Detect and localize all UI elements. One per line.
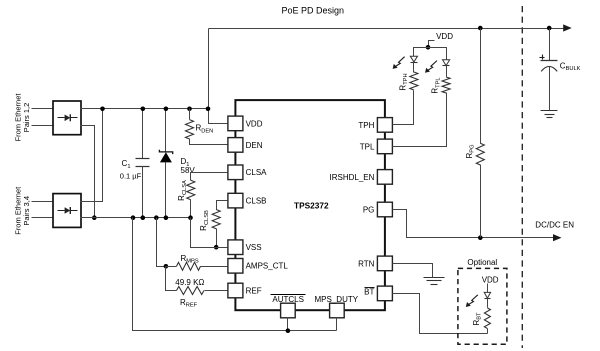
svg-text:CLSA: CLSA (246, 168, 268, 177)
node: VSS bus / bridge1 junction (92, 215, 97, 220)
node: AMPS/REF branch on bus (154, 215, 159, 220)
svg-text:CBULK: CBULK (560, 61, 581, 72)
arrow: PoE rail output (563, 24, 572, 31)
pin BT (right, box) (377, 286, 392, 301)
node: VDD bus / bridge2 junction (100, 107, 105, 112)
light arrow for LED D2 (395, 57, 405, 67)
optional section dashed box (458, 268, 507, 344)
wire: right branch to LED2 (429, 48, 447, 60)
wire: vertical from PoE rail down to VDD bus at x=208 (208, 29, 210, 109)
svg-text:49.9 KΩ: 49.9 KΩ (175, 278, 204, 287)
node: D1 on VDD bus (164, 107, 169, 112)
resistor RTPH (410, 72, 418, 90)
wire: RMPS to AMPS_CTL pin (201, 266, 228, 268)
svg-text:RMPS: RMPS (181, 254, 199, 265)
wire: D1 anode lead to VSS bus (165, 163, 167, 218)
resistor RMPS (177, 262, 201, 270)
resistor RREF 49.9 KOhm (177, 287, 205, 295)
wire: RTPH to TPH pin (393, 91, 414, 125)
LED D4 (BT indicator) (484, 292, 490, 298)
wire: RREF to REF pin (205, 290, 228, 292)
pin IRSHDL_EN (right, box) (377, 170, 392, 185)
svg-text:AMPS_CTL: AMPS_CTL (246, 262, 289, 271)
wire: VDD bus corner down to VDD pin (209, 109, 228, 124)
wire: VSS pin to VSS bus (191, 218, 228, 248)
svg-text:C1: C1 (122, 159, 131, 170)
svg-text:RDEN: RDEN (196, 124, 214, 135)
arrow: DC/DC EN output (553, 234, 562, 241)
pin DEN (left, box) (228, 138, 243, 153)
ground (CBULK) (541, 110, 558, 112)
wire: bridge1 positive output to VDD bus (81, 108, 209, 110)
wire: top PoE rail y=28 (209, 28, 564, 30)
pin VDD (left, box) (228, 116, 243, 131)
pin RTN (right, box) (377, 256, 392, 271)
rectifier bridge B2 (pairs 3,4) (53, 194, 81, 228)
svg-text:VDD: VDD (436, 32, 453, 41)
wire: BT pin to RBT bottom (393, 294, 488, 334)
svg-text:IRSHDL_EN: IRSHDL_EN (329, 173, 374, 182)
diode inside bridge B2 (58, 210, 65, 212)
wire: RTPL to TPL pin (393, 93, 447, 147)
wire: bridge2 left input leads (32, 201, 53, 203)
svg-text:TPH: TPH (358, 121, 374, 130)
capacitor C1 0.1 uF (136, 158, 150, 160)
svg-text:MPS_DUTY: MPS_DUTY (315, 295, 359, 304)
svg-text:PG: PG (363, 205, 375, 214)
svg-text:TPS2372: TPS2372 (294, 200, 329, 210)
LED D3 (TPL indicator) (443, 60, 450, 66)
svg-text:DC/DC EN: DC/DC EN (535, 221, 574, 230)
svg-text:PoE PD Design: PoE PD Design (282, 6, 345, 16)
svg-text:RTPL: RTPL (431, 77, 442, 93)
svg-text:Optional: Optional (467, 258, 497, 267)
svg-text:VDD: VDD (246, 119, 263, 128)
wire: junction down to RREF (166, 267, 177, 291)
svg-text:RCLSB: RCLSB (199, 210, 210, 231)
svg-text:DEN: DEN (246, 141, 263, 150)
light arrow for LED D3 (427, 61, 437, 71)
pin MPS_DUTY (bottom, box) (330, 303, 345, 318)
wire: bridge1 left input leads (32, 108, 53, 110)
resistor RCLSA (187, 180, 195, 199)
svg-text:RREF: RREF (180, 298, 198, 309)
node: RPG on DC/DC EN line (478, 235, 483, 240)
capacitor CBULK (polarized) (541, 60, 558, 62)
svg-text:TPL: TPL (360, 142, 375, 151)
wire: RPG upper lead (480, 29, 482, 144)
wire: LED3 to RBT (487, 299, 489, 308)
node: CBULK on PoE rail (547, 26, 552, 31)
pin TPL (right, box) (377, 139, 392, 154)
node: RCLSB on VSS pin wire (214, 245, 219, 250)
light arrow for LED D4 (468, 295, 478, 305)
svg-text:BT: BT (364, 288, 374, 297)
wire: optional VDD lead to LED3 (487, 284, 489, 293)
svg-text:Pairs 1,2: Pairs 1,2 (22, 103, 31, 133)
wire: RBT bottom lead (487, 329, 489, 334)
wire: RCLSA bottom to VSS bus (190, 200, 192, 218)
svg-text:RTN: RTN (358, 259, 375, 268)
resistor RTPL (442, 77, 450, 93)
pin TPH (right, box) (377, 118, 392, 133)
dashed system boundary line (521, 6, 523, 348)
rectifier bridge B1 (pairs 1,2) (53, 101, 81, 135)
svg-text:0.1 µF: 0.1 µF (120, 171, 142, 180)
node: RMPS/RREF junction (164, 264, 169, 269)
svg-text:AUTCLS: AUTCLS (272, 295, 304, 304)
pin AMPS_CTL (left, box) (228, 259, 243, 274)
svg-text:VDD: VDD (482, 275, 499, 284)
node: D1 on VSS bus (164, 215, 169, 220)
wire: RDEN bottom lead to DEN pin (190, 139, 228, 145)
resistor RPG (476, 143, 484, 165)
ground (RTN) (424, 277, 445, 279)
svg-text:RTPH: RTPH (398, 73, 409, 90)
wire: RPG lower lead (480, 165, 482, 238)
svg-text:RPG: RPG (465, 145, 476, 159)
op IC U1 TPS2372 body (235, 100, 385, 310)
resistor RCLSB (212, 210, 220, 229)
svg-text:VSS: VSS (246, 243, 262, 252)
wire: AUTCLS pin to bottom rail (287, 318, 289, 331)
wire: CLSA pin to RCLSA (191, 173, 228, 181)
wire: MPS_DUTY pin to bottom rail (336, 318, 338, 331)
wire: CBULK bottom lead (549, 67, 551, 111)
wire: CBULK top lead (549, 29, 551, 61)
LED D2 (TPH indicator) (410, 56, 417, 62)
svg-text:CLSB: CLSB (246, 197, 267, 206)
wire: branch from VSS bus to RMPS/RREF node (157, 218, 166, 267)
node: RCLSA / VSS-sense junction on bus (188, 215, 193, 220)
node: RDEN on VDD bus (187, 107, 192, 112)
wire: RMPS left lead (166, 266, 177, 268)
wire: D1 cathode lead from VDD bus (165, 109, 167, 153)
node: AUTCLS on bottom rail (286, 328, 291, 333)
diode inside bridge B1 (58, 117, 65, 119)
wire: VSS bus down to bottom rail (133, 218, 337, 331)
node: VDD bus at x208 (206, 107, 211, 112)
resistor RDEN (186, 120, 194, 139)
svg-text:Pairs 3,4: Pairs 3,4 (22, 196, 31, 226)
svg-text:RBT: RBT (472, 312, 483, 326)
pin VSS (left, box) (228, 240, 243, 255)
pin REF (left, box) (228, 283, 243, 298)
node: C1 on VSS bus (141, 215, 146, 220)
wire: CLSB pin to RCLSB (217, 201, 228, 210)
wire: bridge2 positive output up to VDD bus (81, 109, 103, 202)
wire: RTN pin to ground (393, 264, 433, 278)
wire: LED2 to RTPL (446, 66, 448, 77)
label: + polarity (540, 57, 545, 59)
wire: VSS bus y=217.7 (81, 217, 191, 219)
node: VDD LED branch junction (426, 45, 431, 50)
pin AUTCLS (bottom, box) (281, 303, 296, 318)
zener diode D1 58V (159, 150, 172, 154)
pin PG (right, box) (377, 202, 392, 217)
wire: bridge1 negative output down to VSS bus (81, 126, 95, 218)
node: left VSS drop on bus (131, 215, 136, 220)
wire: VDD lead (429, 41, 435, 48)
pin CLSB (left, box) (228, 193, 243, 208)
wire: LED1 to RTPH (413, 63, 415, 73)
svg-text:RCLSA: RCLSA (177, 180, 188, 201)
wire: RCLSB bottom to VSS pin wire (216, 229, 218, 248)
svg-text:REF: REF (246, 286, 262, 295)
node: RPG on PoE rail (478, 26, 483, 31)
svg-text:58V: 58V (181, 166, 196, 175)
wire: left branch to LED1 (414, 48, 429, 57)
wire: C1 bottom lead to VSS bus (142, 167, 144, 218)
resistor RBT (484, 308, 490, 329)
wire: C1 top lead from VDD bus (142, 109, 144, 159)
node: C1 on VDD bus (141, 107, 146, 112)
wire: RDEN top lead (189, 109, 191, 120)
pin CLSA (left, box) (228, 165, 243, 180)
wire: PG pin to DC/DC EN line (393, 210, 554, 238)
